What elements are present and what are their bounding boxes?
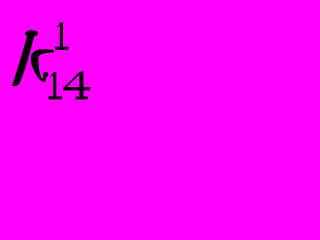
superscript 1 — [55, 23, 68, 50]
k arm, curl and cup — [31, 49, 54, 82]
subscript 1 — [49, 72, 62, 99]
base k (math italic) — [12, 30, 53, 86]
subscript 4 — [63, 71, 90, 99]
k stem with top flag — [12, 30, 37, 86]
k leg ball terminal — [43, 72, 48, 77]
